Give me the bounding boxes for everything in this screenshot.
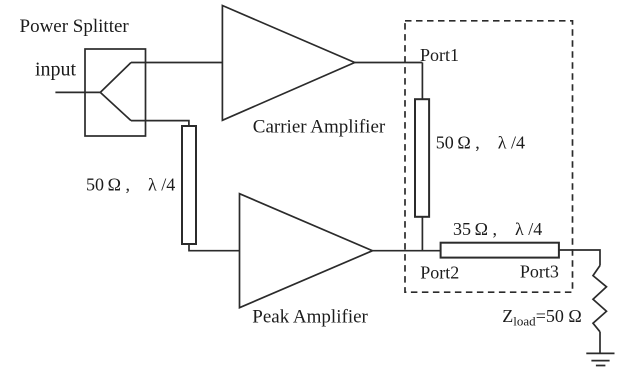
svg-text:50 Ω , λ /4: 50 Ω , λ /4 [86,175,175,195]
svg-text:Carrier Amplifier: Carrier Amplifier [253,117,386,138]
resistor Zload (zigzag) [593,266,607,332]
wire TL2 bottom to peak amplifier [189,244,240,251]
wire Port3 to load resistor [559,250,600,266]
ground symbol [586,353,614,365]
wire carrier output to Port1 [355,62,423,64]
wire splitter top output to carrier amplifier [131,62,222,64]
wire splitter bottom output to TL2 [131,121,189,126]
wire peak output to Port2 and TL3 [373,250,441,252]
wire TL1 bottom to Port2 junction [421,217,423,251]
power splitter Y symbol [100,63,131,121]
wire resistor to ground [599,332,601,353]
svg-text:Port2: Port2 [420,263,459,283]
transmission line TL1 (50 ohm quarter-wave, vertical right) [415,99,429,217]
wire input to splitter [55,91,100,93]
carrier amplifier triangle [222,6,354,121]
transmission line TL2 (50 ohm quarter-wave, vertical left) [182,126,196,244]
svg-text:35 Ω , λ /4: 35 Ω , λ /4 [453,219,542,239]
power splitter box [85,49,146,136]
svg-text:Power Splitter: Power Splitter [20,16,130,37]
svg-text:Port1: Port1 [420,45,459,65]
svg-text:50 Ω , λ /4: 50 Ω , λ /4 [436,133,525,153]
peak amplifier triangle [240,194,373,308]
output combining network boundary (dashed box) [405,21,573,292]
svg-text:Zload=50 Ω: Zload=50 Ω [502,306,581,329]
svg-text:Peak Amplifier: Peak Amplifier [252,306,368,327]
svg-text:input: input [35,59,77,81]
svg-text:Port3: Port3 [520,262,559,282]
wire Port1 down to 50-ohm line [421,63,423,100]
transmission line TL3 (35 ohm quarter-wave, horizontal) [441,243,559,258]
